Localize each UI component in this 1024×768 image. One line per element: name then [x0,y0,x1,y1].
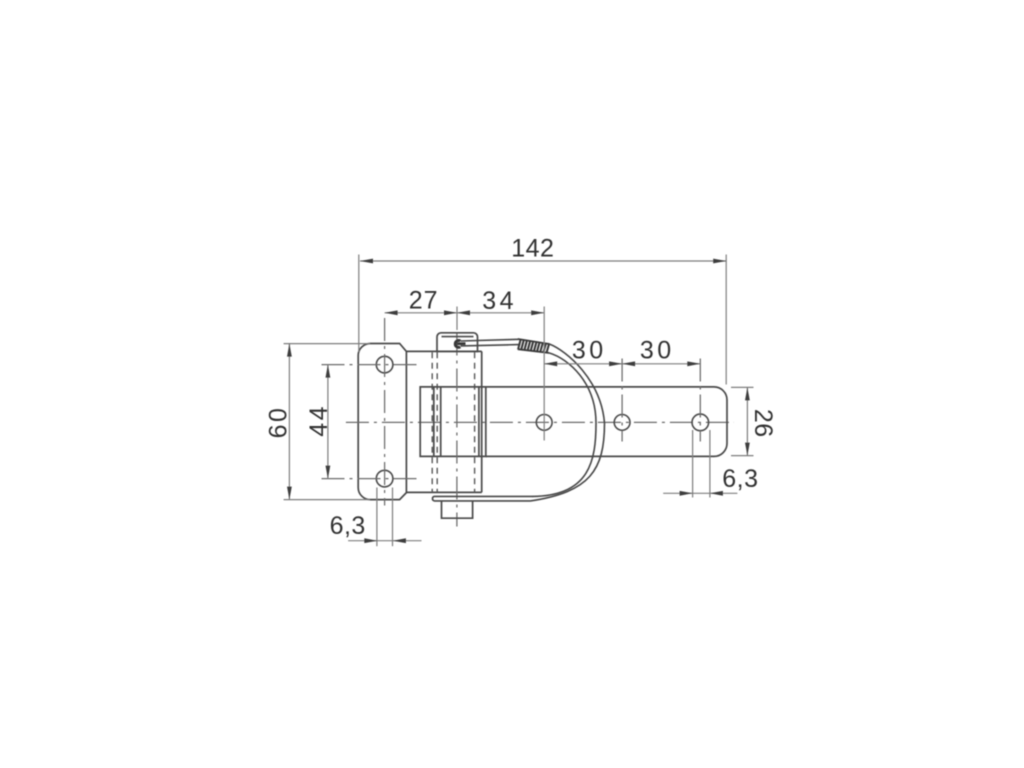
dim 27/34 extension mid [456,307,458,331]
dim 27 arrow left [385,310,398,315]
flange inner line b [440,387,442,457]
dim 30a arrow left [544,361,557,366]
bail loop outer edge [531,344,605,501]
dim 142 arrow left [360,259,373,264]
base bottom edge [406,491,481,493]
svg-text:142: 142 [511,234,554,262]
dim 34 arrow right [531,310,544,315]
svg-text:34: 34 [482,287,517,315]
dim 30a arrow right [609,361,622,366]
arm hole 3 centerline [699,359,701,442]
drum flange [420,387,486,457]
dim 30b arrow left [622,361,635,366]
left mounting plate outline [358,344,406,500]
arm top edge [486,386,714,388]
arm hole 2 centerline [621,359,623,442]
arm hole 2 [614,415,630,431]
flange inner line a [433,387,435,457]
dim 44 arrow bottom [326,466,331,479]
dim 26 extension bottom [731,455,754,457]
dim 142 line [360,260,726,262]
dim 6,3 bottom arrow left [364,538,377,543]
arm hole 3 [692,414,709,431]
dim 26 line [746,387,748,455]
dim 34 line [457,312,544,314]
svg-text:60: 60 [264,406,292,439]
dim 26 arrow top [745,387,750,400]
svg-text:6,3: 6,3 [722,465,758,493]
main horizontal centerline [346,421,734,423]
flange inner line c [478,387,480,457]
dim 6,3 bottom line [348,540,421,542]
dim 60 extension bottom [284,499,370,501]
plate hole top [376,356,393,373]
dim 6,3 right arrow left [680,491,693,496]
dim 30a line [544,363,622,365]
dim 142 extension right [725,255,727,385]
drum right edge [481,351,483,492]
dim 26 arrow bottom [745,443,750,456]
plate holes vertical centerline [384,318,386,506]
dim 60 extension top [284,343,370,345]
plate top hole horizontal centerline [322,364,418,366]
dim 44 arrow top [326,365,331,378]
spring coil [518,339,550,344]
dim 6,3 right arrow right [710,491,723,496]
dim 60 arrow top [287,344,292,357]
arm right end [714,387,727,457]
wire top leg upper edge [461,339,519,341]
dim 27 line [385,312,457,314]
svg-text:26: 26 [749,409,777,438]
dim 30b line [622,363,700,365]
drum hidden line left a [431,352,433,492]
dim 142 extension left [358,255,360,353]
plate hole bottom [376,470,393,487]
dim 60 line [288,344,290,500]
dim 6,3 right extension a [692,430,694,498]
base top edge [406,350,481,352]
svg-text:30: 30 [640,337,675,365]
arm bottom edge [486,455,714,457]
svg-text:27: 27 [409,287,439,315]
dim 6,3 right extension b [709,430,711,498]
dim 30b arrow right [687,361,700,366]
plate bottom hole horizontal centerline [322,478,418,480]
bail loop inner edge [533,353,597,496]
dim 6,3 bottom arrow right [393,538,406,543]
drum vertical centerline [456,333,458,527]
bail bottom leg [432,496,533,501]
svg-text:44: 44 [305,404,333,437]
dim 44 line [327,365,329,479]
dim 60 arrow bottom [287,487,292,500]
dim 34 arrow left [457,310,470,315]
dim 6,3 right line [663,492,737,494]
drum hidden line left b [436,352,438,492]
svg-text:30: 30 [572,336,607,364]
drum hidden line right [474,352,476,492]
top bracket [437,333,478,352]
top bracket inner edge [442,336,474,338]
wire end curl [455,341,460,348]
bottom tab [442,501,473,518]
dim 27 arrow right [444,310,457,315]
dim 6,3 bottom extension a [376,488,378,547]
dim 34 extension right / hole1 centerline [543,307,545,441]
dim 26 extension top [731,386,754,388]
dim 142 arrow right [713,259,726,264]
svg-text:6,3: 6,3 [330,512,366,540]
dim 6,3 bottom extension b [392,488,394,547]
wire top leg lower edge [461,345,519,346]
arm hole 1 [536,415,552,431]
